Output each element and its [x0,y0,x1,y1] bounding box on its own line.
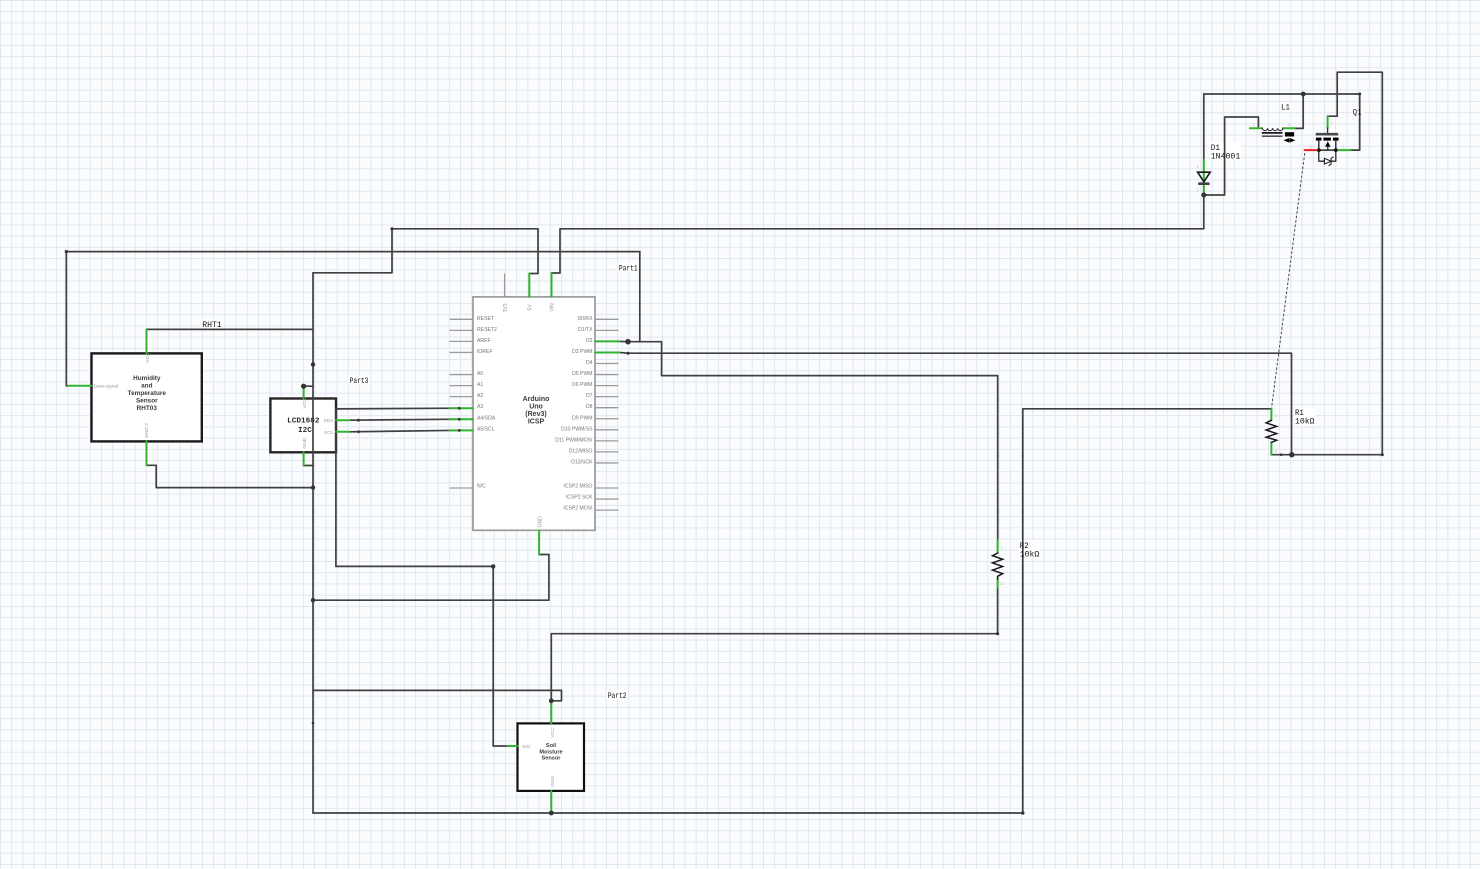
label R1 10k [1295,409,1315,427]
svg-text:ICSP2 MISO: ICSP2 MISO [563,484,592,490]
svg-text:Humidity: Humidity [133,375,161,382]
wire top-right rail [1204,93,1360,95]
svg-text:D6 PWM: D6 PWM [572,382,592,388]
svg-text:IOREF: IOREF [477,349,493,355]
svg-text:RHT03: RHT03 [137,405,158,412]
wire LCD GND tap [304,465,313,467]
wire 5V run [392,229,538,274]
svg-text:A5/SCL: A5/SCL [477,426,495,432]
lead Arduino A3 [450,407,473,409]
svg-text:(Rev3): (Rev3) [525,411,546,418]
wire L1 right lead to rail [1295,94,1304,128]
svg-text:D1/TX: D1/TX [578,327,593,333]
svg-text:SCL: SCL [324,430,334,436]
lead Arduino 5V [528,274,530,297]
label Part2 [608,692,627,701]
wire D1 cathode to L1 riser [1204,117,1259,195]
lead Q1 gate [1327,116,1329,128]
wire soil VCC to left rail [313,690,562,700]
svg-text:I2C: I2C [298,427,312,435]
connected green pin leads [69,116,1351,813]
svg-text:D9 PWM: D9 PWM [572,415,592,421]
svg-text:Sensor: Sensor [136,397,158,404]
wire left vertical rail [312,273,314,813]
svg-text:Moisture: Moisture [539,749,562,755]
node RHT GND junction [311,485,315,489]
lead R2 top [997,540,999,553]
transistor Q1 MOSFET symbol [1316,128,1339,166]
svg-text:Q1: Q1 [1353,109,1362,118]
lead Q1 source (red, unconnected) [1305,149,1317,151]
svg-text:A0: A0 [477,371,483,377]
ratsnest dashed line Q1 source to R1 [1272,154,1305,408]
label Q1 [1353,109,1362,118]
lead L1 right [1283,127,1294,129]
node soil VCC junction [549,698,554,703]
svg-text:A4/SDA: A4/SDA [477,415,496,421]
lead Arduino VIN [551,273,553,297]
svg-text:VIN: VIN [550,303,556,312]
node R1 lead end [1280,453,1283,456]
svg-text:and: and [141,383,152,390]
lead soil VCC [550,701,552,724]
wire data signal horizontal [66,251,640,253]
label D1 1N4001 [1211,144,1241,162]
svg-text:A1: A1 [477,382,483,388]
svg-text:A2: A2 [477,393,483,399]
node A5 wire end [458,429,461,432]
lead RHT1 GND [146,441,148,465]
node left rail bend [311,362,315,366]
lead Arduino D2 [595,340,619,342]
svg-text:Arduino: Arduino [523,396,550,403]
svg-text:10kΩ: 10kΩ [1020,550,1040,559]
lead Arduino D3 [595,351,619,353]
svg-text:D5 PWM: D5 PWM [572,371,592,377]
Arduino right pin labels [555,316,593,512]
lead LCD SCL [336,431,349,433]
svg-text:Part1: Part1 [619,265,638,274]
wire D2 to R2 [619,341,998,540]
lead Arduino GND [538,531,540,555]
svg-text:D0/RX: D0/RX [577,316,593,322]
faint pin numbers [1001,121,1346,587]
svg-text:VCC: VCC [550,727,556,738]
wire D3 net to R1 and Q1 gate [619,72,1382,455]
svg-text:RESET: RESET [477,316,494,322]
label backgrounds [201,102,1364,699]
label Part1 [619,265,638,274]
LCD module Part3 (LCD1602 I2C) body [270,398,336,453]
sensor RHT1 (Humidity and Temperature Sensor RHT03) body [92,352,202,441]
svg-text:GND: GND [302,437,308,448]
Arduino Uno U1 (Part1) body [473,297,595,530]
svg-text:3V3: 3V3 [503,303,509,312]
wire RHT1 GND step [147,465,314,487]
svg-text:D11 PWM/MOSI: D11 PWM/MOSI [555,437,592,443]
svg-text:D12/MISO: D12/MISO [569,448,593,454]
Soil Moisture Sensor (Part2) body [518,723,585,791]
resistor R1 zigzag [1266,420,1276,442]
svg-text:Part2: Part2 [608,692,627,701]
label RHT1 [202,321,222,330]
svg-text:ICSP2 SCK: ICSP2 SCK [566,495,593,501]
wire soil VCC riser [550,634,552,701]
svg-text:D7: D7 [586,393,593,399]
svg-text:N/C: N/C [477,484,486,490]
label R2 10k [1020,542,1040,559]
node 5V wire corner [390,227,393,230]
wire Q1 drain to rail [1350,94,1359,150]
wire LCD VCC tap [304,385,313,387]
node soil GND junction [549,811,554,816]
svg-text:GND 2: GND 2 [144,423,150,438]
lead LCD VCC [303,386,305,398]
node Q1 drain riser top [1358,93,1361,96]
wire A3 to soil SIG [336,408,508,746]
svg-text:ICSP2 MOSI: ICSP2 MOSI [563,506,592,512]
lead D1 anode/cathode [1203,160,1205,195]
wire SDA [349,419,459,420]
lead L1 left [1250,127,1262,129]
svg-text:SDA: SDA [323,418,334,424]
wire D1 anode drop [1203,94,1205,160]
node ground rail corner [1021,811,1024,814]
svg-text:D3 PWM: D3 PWM [572,349,592,355]
node SCL wire end [357,430,360,433]
svg-text:Temperature: Temperature [128,390,167,397]
svg-text:LCD1602: LCD1602 [287,418,320,426]
lead soil SIG [508,745,518,747]
svg-text:A3: A3 [477,404,483,410]
svg-text:SIG: SIG [522,744,531,750]
node D2 junction [625,339,631,345]
wire D1 to VIN run [552,195,1204,273]
node L1/Q1 top rail junction [1301,92,1306,97]
svg-text:D4: D4 [586,360,593,366]
svg-text:Part3: Part3 [350,377,369,386]
lead Arduino A5 [450,429,473,431]
svg-text:ICSP: ICSP [528,418,545,425]
svg-text:D8: D8 [586,404,593,410]
svg-text:L1: L1 [1281,104,1290,113]
svg-text:GND: GND [537,516,543,528]
svg-text:Sensor: Sensor [542,756,562,762]
wire data signal drop to RHT1 [66,252,68,386]
inductor L1 symbol [1262,128,1294,142]
lead RHT1 VCC [146,330,148,353]
svg-text:Soil: Soil [546,743,557,749]
svg-text:GND: GND [550,776,556,787]
node Arduino GND junction [311,598,315,602]
lead R1 top [1270,408,1272,420]
wire bus group [66,72,1382,813]
svg-text:RHT1: RHT1 [202,321,222,330]
svg-text:1N4001: 1N4001 [1211,152,1241,161]
wire 5V to left rail [313,229,392,273]
node R2 bottom bend [996,632,999,635]
node gate net corner [1381,453,1384,456]
lead R1 bottom [1270,442,1272,454]
node D1 cathode junction [1201,193,1206,198]
Arduino top/bottom pin labels [503,303,556,528]
label Part3 [350,377,369,386]
svg-text:R1: R1 [1295,409,1304,418]
svg-text:5V: 5V [528,304,534,311]
label L1 [1281,104,1290,113]
svg-text:VCC: VCC [302,398,308,409]
svg-text:RESET2: RESET2 [477,327,497,333]
wire R2 bottom run [551,588,997,634]
Arduino unconnected pin stubs [450,273,619,510]
node D3 wire bend [627,352,630,355]
lead soil GND [550,791,552,813]
resistor R2 zigzag [993,553,1003,579]
wire Part1 D2 drop [639,252,641,342]
wire SCL [349,430,459,432]
node soil SIG junction [491,564,495,568]
svg-text:AREF: AREF [477,338,491,344]
lead LCD SDA [336,419,349,421]
svg-text:Uno: Uno [529,404,543,411]
diode D1 symbol [1198,172,1211,184]
svg-text:10kΩ: 10kΩ [1295,418,1315,427]
svg-text:D10 PWM/SS: D10 PWM/SS [561,426,593,432]
lead R2 bottom [997,579,999,588]
svg-text:Data-signal: Data-signal [94,384,119,390]
Arduino left pin labels [477,316,497,490]
lead LCD GND [303,452,305,465]
lead Q1 drain [1338,149,1350,151]
svg-text:D2: D2 [586,338,593,344]
wire Arduino GND step [313,555,549,601]
wire bottom ground rail [313,409,1271,813]
node A4 wire end [458,418,461,421]
node R1 bottom junction [1289,452,1294,457]
wire RHT1 VCC [147,328,314,330]
lead Arduino A4 [450,418,473,420]
node A3 wire end [458,407,461,410]
node data wire corner [65,250,68,253]
lead RHT1 Data [69,385,92,387]
node SDA wire end [357,419,360,422]
svg-text:D13/SCK: D13/SCK [571,460,593,466]
node LCD VCC junction [301,384,306,389]
node left rail bendpoint [312,722,315,725]
